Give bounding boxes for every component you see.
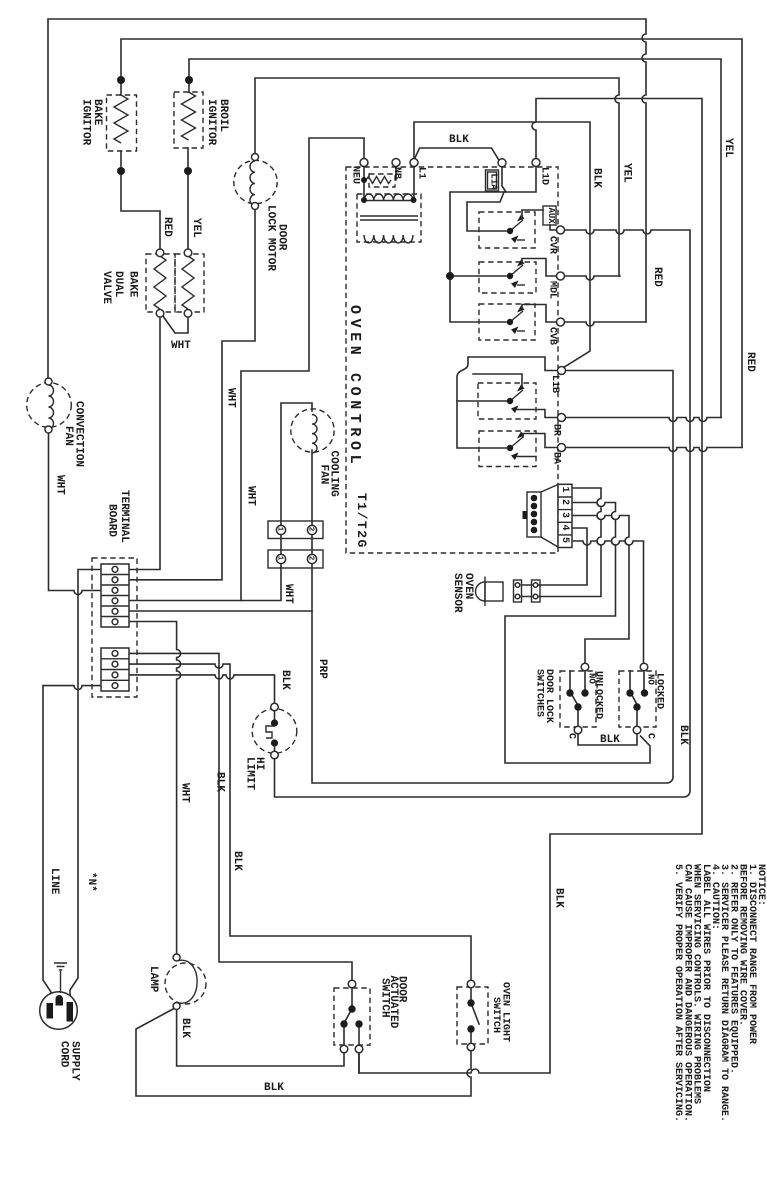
svg-text:IGNITOR: IGNITOR — [205, 99, 217, 146]
terminal door lock motor bottom — [252, 203, 259, 210]
connector circle 2 block2 — [307, 554, 317, 563]
wire terminal t3L to hi-limit top (BLK) — [129, 675, 275, 703]
terminal locked C — [633, 726, 641, 734]
wire bake ignitor bottom to bake valve (RED) — [121, 151, 160, 249]
svg-text:CVR: CVR — [547, 236, 558, 254]
svg-text:BA: BA — [551, 452, 562, 464]
wire terminal t2 to door lock motor bottom (WHT) — [129, 210, 255, 580]
terminal unlocked NO — [581, 663, 589, 671]
svg-text:WHT: WHT — [179, 783, 191, 803]
svg-text:BLK: BLK — [591, 168, 603, 188]
junction bake bottom — [117, 167, 125, 175]
wire NEU to transformer primary — [363, 167, 365, 197]
terminal convection fan top — [45, 378, 52, 385]
svg-text:TERMINAL: TERMINAL — [118, 490, 130, 543]
connector circle 2 block1 — [307, 525, 317, 534]
svg-text:1: 1 — [276, 556, 284, 561]
svg-text:5: 5 — [559, 537, 570, 543]
relay BR — [457, 374, 558, 419]
terminal DAS top — [348, 980, 356, 988]
svg-text:1: 1 — [559, 487, 570, 493]
terminals board upper — [112, 566, 118, 624]
notice text block — [672, 864, 766, 1122]
oven sensor — [476, 577, 541, 607]
wire block4 to oven sensor upper pin — [539, 528, 588, 585]
wire lamp bottom to door actuated switch left (WHT path) — [177, 1010, 344, 1066]
svg-text:SWITCH: SWITCH — [490, 997, 501, 1033]
wire BA relay output row — [566, 448, 743, 452]
wire CVR relay output to hi-limit bottom — [275, 230, 691, 797]
label convection fan — [62, 401, 85, 467]
svg-text:BLK: BLK — [264, 1082, 284, 1094]
label hi limit — [244, 757, 266, 790]
relay MDL — [479, 259, 557, 294]
svg-text:BLK: BLK — [279, 670, 291, 690]
cooling fan connector block 1 — [268, 521, 323, 539]
connector circle 1 block1 — [276, 525, 286, 534]
wire L1 BLK rail to L1B — [414, 122, 590, 368]
wire door actuated switch right to L1D circuit — [358, 1053, 360, 1073]
oven light switch — [457, 987, 488, 1044]
terminal BA — [558, 444, 566, 452]
wiring plug connector — [523, 485, 559, 548]
terminal DAS bottom right — [355, 1045, 363, 1053]
svg-text:YEL: YEL — [722, 138, 734, 158]
wire L1D rail5 to lamp feed via oven light circuit — [359, 99, 702, 1074]
svg-text:BAKE: BAKE — [91, 99, 103, 126]
terminal door lock motor top — [252, 154, 259, 161]
wire L1A output jog — [502, 167, 506, 192]
wire LINE from terminal t4L to supply cord — [43, 686, 101, 1002]
wire CVB relay output row — [565, 322, 647, 326]
svg-text:RED: RED — [161, 217, 173, 237]
wire relay bus branch to MDL pivot — [450, 275, 506, 277]
svg-text:WHT: WHT — [225, 388, 237, 408]
svg-text:WHT: WHT — [282, 584, 294, 604]
svg-text:C: C — [566, 733, 577, 739]
svg-text:RED: RED — [651, 267, 663, 287]
svg-text:C: C — [645, 733, 656, 739]
wire terminal t4 to cooling fan connector 1 — [129, 564, 281, 601]
terminal unlocked C — [574, 726, 582, 734]
label locked — [646, 673, 665, 709]
svg-text:NB: NB — [391, 167, 402, 179]
label oven sensor — [451, 573, 474, 613]
label door actuated switch — [379, 976, 408, 1029]
junction relay bus — [446, 272, 454, 280]
svg-text:NO: NO — [646, 674, 656, 685]
terminal MDL — [557, 272, 565, 280]
svg-text:OVEN CONTROL: OVEN CONTROL — [346, 305, 363, 468]
connector circle 1 block2 — [276, 554, 286, 563]
svg-text:MDL: MDL — [547, 281, 558, 299]
bake dual valve (bake side) — [146, 254, 175, 312]
label oven light switch — [490, 982, 511, 1042]
terminal blocks 1-5 — [558, 484, 572, 547]
wire NEU to cooling fan connector (WHT) — [241, 138, 364, 601]
junction bake top — [117, 76, 125, 84]
terminal convection fan bottom — [45, 426, 52, 433]
wire neutral N from terminal t1 to supply cord — [70, 570, 101, 1002]
svg-text:CVB: CVB — [547, 327, 558, 345]
terminal L1 — [410, 159, 418, 167]
terminal lamp top — [173, 954, 180, 961]
svg-text:2: 2 — [307, 556, 315, 561]
terminal L1A — [498, 159, 506, 167]
terminal NEU — [360, 159, 368, 167]
wire BR relay output row — [566, 418, 722, 422]
wire block1 to oven sensor lower pin — [539, 488, 602, 597]
svg-text:RED: RED — [744, 352, 756, 372]
junction broil bottom — [184, 167, 192, 175]
terminal board — [92, 558, 137, 697]
terminal bake valve top — [156, 249, 164, 257]
svg-text:BLK: BLK — [214, 772, 226, 792]
terminal broil valve top — [184, 249, 192, 257]
wire convection fan bottom to terminal t3 (WHT) — [49, 433, 102, 595]
svg-text:CORD: CORD — [58, 1041, 70, 1068]
svg-text:*N*: *N* — [85, 872, 97, 892]
wire L1 to transformer primary — [413, 167, 415, 197]
relay BA — [479, 431, 558, 467]
junction transformer primary right — [411, 197, 417, 203]
door actuated switch — [334, 988, 370, 1045]
svg-text:BLK: BLK — [600, 734, 620, 746]
svg-text:NEU: NEU — [350, 166, 361, 184]
terminal NB — [392, 159, 400, 167]
svg-text:VALVE: VALVE — [100, 271, 112, 304]
supply cord plug — [40, 992, 78, 1030]
terminals board lower — [112, 651, 118, 689]
wire terminal t6 to lamp (WHT) — [129, 622, 181, 954]
svg-text:YEL: YEL — [621, 163, 633, 183]
label bake dual valve — [100, 271, 139, 304]
svg-text:3: 3 — [559, 512, 570, 518]
wire CVR relay feed — [467, 192, 506, 231]
svg-text:LAMP: LAMP — [147, 966, 159, 993]
cooling fan — [281, 403, 334, 526]
svg-text:SWITCHES: SWITCHES — [534, 669, 545, 717]
wire oven sensor connector pins — [522, 585, 532, 597]
svg-text:WHT: WHT — [245, 486, 257, 506]
hi limit — [252, 709, 297, 754]
junction broil top — [185, 76, 193, 84]
ground symbol — [54, 963, 67, 993]
door lock motor — [234, 160, 277, 205]
label cooling fan — [318, 451, 340, 498]
wire block2 to locked switch C — [505, 503, 650, 764]
svg-text:FAN: FAN — [318, 465, 330, 485]
terminal CVB — [557, 318, 565, 326]
svg-text:PRP: PRP — [316, 659, 328, 679]
terminal OLS bottom — [467, 1043, 475, 1051]
label bake ignitor — [80, 99, 104, 146]
svg-text:BAKE: BAKE — [127, 271, 139, 298]
wire door lock motor to MDL rail (YEL) — [255, 78, 619, 276]
svg-text:AUX: AUX — [546, 208, 556, 225]
label door lock motor — [265, 205, 288, 271]
wire broil ignitor to BR rail (YEL) — [189, 59, 721, 418]
terminal BR — [558, 414, 566, 422]
relay bus from L1B — [457, 357, 558, 448]
terminal hi limit bottom — [271, 751, 279, 759]
AUX tag box — [543, 206, 556, 225]
svg-text:WHT: WHT — [171, 340, 191, 352]
transformer — [357, 194, 421, 243]
svg-text:BLK: BLK — [677, 725, 689, 745]
svg-text:FAN: FAN — [62, 426, 74, 446]
wire lamp bottom BLK to oven light switch bottom — [136, 1009, 471, 1097]
svg-text:1: 1 — [276, 527, 284, 532]
pins oven sensor — [515, 583, 538, 599]
fuse NEU-NB — [366, 174, 395, 187]
bake ignitor — [107, 95, 137, 151]
svg-text:BLK: BLK — [231, 851, 243, 871]
cooling fan connector links — [281, 535, 312, 555]
labels block digits — [559, 487, 570, 544]
terminal L1D — [532, 159, 540, 167]
wire broil ignitor bottom to broil valve (YEL) — [187, 148, 189, 249]
svg-text:NO: NO — [587, 673, 597, 684]
svg-text:BLK: BLK — [179, 1018, 191, 1038]
wire NB stub — [395, 167, 397, 181]
svg-text:SWITCH: SWITCH — [379, 978, 391, 1018]
svg-text:BR: BR — [551, 424, 562, 436]
terminal DAS bottom left — [340, 1045, 348, 1053]
wire terminal t1L to door actuated switch feed (BLK) — [129, 653, 352, 980]
svg-text:L1A: L1A — [489, 174, 499, 191]
wire valve bottoms join — [163, 316, 189, 334]
junction transformer primary left — [361, 197, 367, 203]
terminal broil valve bottom — [184, 310, 192, 318]
wire bake ignitor to BA rail (RED) — [121, 39, 742, 448]
svg-text:LINE: LINE — [48, 868, 60, 895]
svg-text:T1/T2G: T1/T2G — [354, 493, 369, 549]
wire BLK bridge at L1 — [415, 148, 499, 160]
wire MDL relay output row — [565, 276, 621, 280]
svg-text:BROIL: BROIL — [217, 99, 229, 132]
lamp — [165, 960, 206, 1004]
svg-text:LIMIT: LIMIT — [244, 757, 256, 790]
svg-text:4: 4 — [559, 525, 570, 531]
svg-text:YEL: YEL — [190, 218, 202, 238]
label unlocked — [587, 671, 604, 719]
convection fan — [27, 383, 72, 429]
door lock switch locked — [619, 671, 656, 727]
wire block5 to locked switch NO — [572, 541, 644, 663]
svg-text:DUAL: DUAL — [112, 271, 124, 298]
svg-text:BLK: BLK — [553, 888, 565, 908]
svg-text:L1: L1 — [416, 167, 427, 179]
terminal bake valve bottom — [156, 310, 164, 318]
svg-text:L1D: L1D — [539, 167, 550, 185]
bake dual valve (broil side) — [175, 254, 204, 312]
label door lock switches — [534, 669, 555, 723]
svg-text:LOCK MOTOR: LOCK MOTOR — [265, 205, 277, 271]
terminal hi limit top — [271, 703, 279, 711]
wire unlocked C to locked C (BLK) — [578, 734, 637, 745]
wire terminal t1 to bake valve bottom (WHT) — [129, 317, 160, 570]
broil ignitor — [174, 92, 203, 148]
L1A breaker box — [486, 170, 499, 191]
svg-text:IGNITOR: IGNITOR — [80, 99, 92, 146]
wire terminal t2L to oven light switch feed (BLK) — [129, 664, 471, 980]
terminal L1B — [558, 367, 566, 375]
label terminal board — [106, 490, 131, 543]
oven control box — [346, 167, 558, 553]
door lock switch unlocked — [560, 671, 596, 727]
svg-text:BOARD: BOARD — [106, 504, 118, 537]
label broil ignitor — [205, 99, 229, 146]
terminal CVR — [557, 226, 565, 234]
relay CVB — [479, 304, 557, 340]
svg-text:2: 2 — [307, 527, 315, 532]
svg-text:BLK: BLK — [449, 134, 469, 146]
wire convection-fan to CVB rail (RED net) — [48, 19, 646, 378]
svg-text:WHT: WHT — [54, 475, 66, 495]
wire block3 to unlocked switch NO — [572, 516, 629, 664]
wire L1B to PRP cooling fan feed — [312, 371, 673, 784]
cooling fan connector block 2 — [268, 550, 323, 568]
svg-text:2: 2 — [559, 499, 570, 505]
terminal locked NO — [640, 663, 648, 671]
terminal lamp bottom — [173, 1003, 180, 1010]
relay CVR — [479, 210, 557, 248]
terminal OLS top — [467, 980, 475, 988]
svg-text:SENSOR: SENSOR — [451, 573, 463, 613]
junction NEU fuse — [361, 177, 367, 183]
svg-text:5. VERIFY PROPER OPERATION AFT: 5. VERIFY PROPER OPERATION AFTER SERVICI… — [672, 864, 683, 1122]
wire L1D to relay bus — [450, 167, 536, 322]
wire terminal t5 to PRP junction — [129, 610, 312, 612]
label supply cord — [58, 1041, 81, 1081]
svg-text:L1B: L1B — [549, 375, 560, 393]
